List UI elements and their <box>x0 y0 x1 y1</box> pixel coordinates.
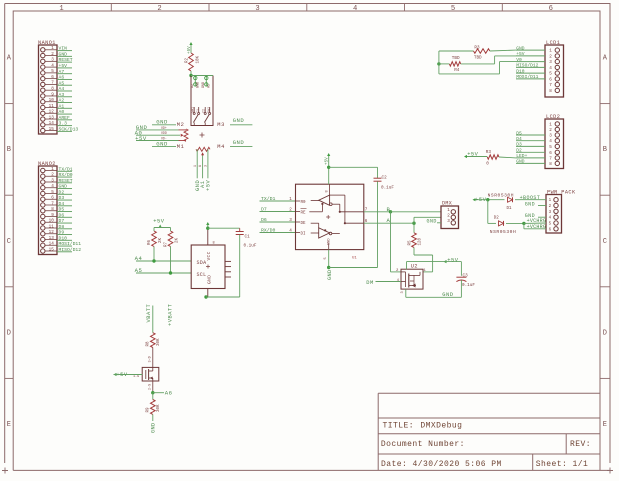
svg-text:M2: M2 <box>177 122 185 128</box>
svg-text:D7: D7 <box>59 218 65 224</box>
svg-text:15: 15 <box>49 127 55 132</box>
wire +5V rail to C3 <box>407 262 462 276</box>
svg-text:D8: D8 <box>59 224 65 230</box>
resistor R3b <box>467 150 516 166</box>
svg-text:RX/D0: RX/D0 <box>59 172 73 178</box>
connector LCD2 pin 4 D4 <box>516 136 560 144</box>
wire VCHRG pins <box>524 218 546 230</box>
svg-text:12: 12 <box>49 230 55 235</box>
connector LCD2 pin 5 D3 <box>516 142 560 150</box>
resistor R9 30K <box>146 393 161 415</box>
svg-text:0.1uF: 0.1uF <box>244 244 257 249</box>
capacitor C2 0.1uF <box>374 167 395 267</box>
svg-text:VBATT: VBATT <box>146 304 152 323</box>
svg-text:Document Number:: Document Number: <box>381 440 465 449</box>
connector LCD2 pin 2 <box>549 127 559 133</box>
svg-text:3: 3 <box>204 165 208 167</box>
wire TX/D1 to U1 pin 1 <box>260 196 296 202</box>
resistor R4 TBD <box>439 56 516 73</box>
connector NANO2 pin 8 D5 <box>41 207 72 213</box>
frame row ticks left and right <box>5 103 14 105</box>
svg-text:7: 7 <box>365 208 368 213</box>
diode D2 NSR0530H <box>488 216 524 235</box>
svg-text:R5: R5 <box>409 240 413 246</box>
connector NANO1 pin 11 A1 <box>41 103 72 109</box>
diode D1 NSR0530H <box>488 192 520 211</box>
resistor R6 2K <box>148 231 163 261</box>
node junction R6/A4 <box>152 259 155 262</box>
svg-text:3: 3 <box>549 134 552 139</box>
connector LCD1 pin 3 V0 <box>516 57 560 65</box>
resistor R5 120 <box>409 223 423 255</box>
svg-text:MOSI/D11: MOSI/D11 <box>516 74 538 80</box>
svg-text:6: 6 <box>51 75 54 80</box>
connector DMX body <box>441 206 459 229</box>
svg-text:2: 2 <box>51 173 54 178</box>
connector NANO1 pin 9 A3 <box>41 92 72 98</box>
svg-text:GND: GND <box>202 82 206 88</box>
IC U3 pin names <box>197 251 213 284</box>
connector NANO1 pin 8 A4 <box>41 86 72 92</box>
IC U3 VCC pin wire <box>208 228 215 245</box>
connector NANO1 body <box>39 45 58 134</box>
connector LCD1 pin 7 <box>549 82 559 88</box>
wire U3 GND to C1 bottom <box>206 296 240 298</box>
capacitor C3 0.1uF <box>456 273 475 297</box>
connector NANO2 pin 9 D6 <box>41 212 72 218</box>
svg-text:2: 2 <box>447 214 450 219</box>
potentiometer VR2 body <box>196 147 210 155</box>
svg-text:13: 13 <box>49 115 55 120</box>
svg-text:5: 5 <box>549 145 552 150</box>
node junction U1 GND <box>327 266 330 269</box>
connector LCD1 pin 6 MOSI/D11 <box>516 74 560 82</box>
wire rail R3 R4 <box>438 51 440 74</box>
svg-text:3: 3 <box>289 218 292 223</box>
svg-text:TX/D1: TX/D1 <box>59 166 73 172</box>
potentiometer VR1 body <box>179 129 189 141</box>
svg-text:GND: GND <box>59 51 68 57</box>
connector LCD1 body <box>545 45 564 97</box>
svg-text:2: 2 <box>289 208 292 213</box>
svg-text:3-D: 3-D <box>148 356 152 362</box>
transistor Q1 body <box>133 367 159 381</box>
svg-text:SCK/D13: SCK/D13 <box>59 126 79 132</box>
connector NANO1 pin 4 +5V <box>41 63 72 69</box>
svg-text:D6: D6 <box>59 212 65 218</box>
frame corner cross bottom-left <box>2 468 8 474</box>
svg-text:1: 1 <box>51 167 54 172</box>
svg-text:D9: D9 <box>59 230 65 236</box>
svg-text:D10: D10 <box>59 235 68 241</box>
svg-text:30K: 30K <box>157 404 161 412</box>
svg-text:3.3: 3.3 <box>59 121 68 127</box>
IC U1 pin names <box>296 201 307 237</box>
connector NANO1 pin 15 SCK/D13 <box>41 126 79 132</box>
svg-text:D2: D2 <box>516 148 522 154</box>
svg-text:VDD: VDD <box>161 131 167 135</box>
svg-text:SCL: SCL <box>197 272 207 278</box>
resistor R2 10K <box>186 53 201 71</box>
svg-text:11: 11 <box>49 104 55 109</box>
connector LCD1 pin 4 MISO/D12 <box>516 63 560 71</box>
IC U1 VCC pin 8 wire <box>328 167 330 184</box>
svg-text:DI: DI <box>301 232 307 236</box>
svg-text:+VBATT: +VBATT <box>167 303 173 326</box>
svg-text:B: B <box>7 146 11 154</box>
svg-text:6: 6 <box>549 77 552 82</box>
potentiometer VR1 wires <box>136 130 180 141</box>
svg-text:C3: C3 <box>463 273 469 278</box>
connector NANO1 pin 3 RESET <box>41 57 73 63</box>
svg-text:4: 4 <box>51 184 54 189</box>
connector NANO1 pin 5 A7 <box>41 69 72 75</box>
svg-text:1: 1 <box>59 5 63 13</box>
connector LCD2 pin 3 D5 <box>516 130 560 138</box>
svg-text:D3: D3 <box>59 195 65 201</box>
wire A5 to U3 SCL <box>136 272 191 274</box>
svg-text:5: 5 <box>324 257 328 259</box>
svg-text:GND: GND <box>233 117 245 124</box>
svg-text:GND: GND <box>156 140 168 147</box>
power +5V above U1 <box>325 153 331 167</box>
svg-text:8: 8 <box>326 190 330 192</box>
connector LCD2 body <box>545 119 564 169</box>
wire D6 to U1 pin 3 <box>260 217 296 223</box>
svg-text:D6: D6 <box>261 217 267 223</box>
resistor R8 30K <box>146 333 161 348</box>
connector PWR PACK pin 2 GND <box>549 203 559 209</box>
svg-text:TITLE:: TITLE: <box>383 421 415 430</box>
connector NANO1 pin 12 A0 <box>41 109 72 115</box>
wire RX/D0 to U1 pin 4 <box>260 228 296 234</box>
svg-text:RESET: RESET <box>59 178 73 184</box>
svg-text:1: 1 <box>549 122 552 127</box>
node junction A6 <box>151 391 154 394</box>
svg-text:TBD: TBD <box>452 56 460 61</box>
node junction VCHRG <box>522 222 525 225</box>
connector NANO2 pin 1 TX/D1 <box>41 166 73 172</box>
svg-text:1: 1 <box>549 49 552 54</box>
connector LCD2 pin 7 LED+ <box>516 153 560 161</box>
svg-text:M1: M1 <box>177 144 185 150</box>
svg-text:R0: R0 <box>301 201 307 205</box>
svg-text:4: 4 <box>397 279 399 283</box>
power +5V at PWR PACK <box>473 197 487 203</box>
svg-text:M4: M4 <box>217 144 225 150</box>
connector NANO2 pin 6 D3 <box>41 195 72 201</box>
connector NANO1 pin 7 A5 <box>41 80 72 86</box>
svg-text:9: 9 <box>51 92 54 97</box>
potentiometer VR2 wires down <box>197 149 208 178</box>
svg-text:7: 7 <box>549 83 552 88</box>
svg-text:D2: D2 <box>59 189 65 195</box>
IC U1 pin 7 wire B <box>364 206 391 213</box>
svg-text:A1: A1 <box>59 103 65 109</box>
connector PWR PACK pin 1 +BOOST <box>549 198 559 204</box>
connector LCD2 pin 8 GND <box>516 159 560 167</box>
switch SW1 pin circles <box>194 76 208 87</box>
node junction R3/R4 rail <box>437 62 440 65</box>
svg-text:TX/D1: TX/D1 <box>261 196 276 202</box>
svg-text:5: 5 <box>51 190 54 195</box>
potentiometer VR1 pin names <box>161 126 167 141</box>
svg-text:A7: A7 <box>59 69 65 75</box>
power +5V above R6 R7 <box>153 219 170 232</box>
svg-text:4: 4 <box>353 5 357 13</box>
svg-text:A2: A2 <box>208 84 212 88</box>
IC U1 pin 6 wire A <box>364 217 414 224</box>
svg-text:D5: D5 <box>516 130 522 136</box>
connector PWR PACK body <box>546 195 562 234</box>
svg-text:GND: GND <box>327 269 333 280</box>
svg-text:5: 5 <box>549 72 552 77</box>
power +5V at Q1 gate <box>114 372 143 378</box>
svg-text:15: 15 <box>49 247 55 252</box>
svg-text:+5V: +5V <box>59 63 68 69</box>
switch SW1 pin names A2 GND <box>191 82 211 88</box>
svg-text:GND: GND <box>151 422 157 433</box>
connector NANO1 pin 14 3.3 <box>41 121 72 127</box>
mount pin M2 wire and GND <box>152 119 184 128</box>
svg-text:GND: GND <box>197 82 201 88</box>
svg-text:14: 14 <box>49 242 55 247</box>
connector LCD1 pin 5 D10 <box>516 68 560 76</box>
svg-text:1: 1 <box>51 46 54 51</box>
connector NANO2 pin 14 MOSI/D11 <box>41 241 82 247</box>
transistor Q1 source wire <box>148 381 153 393</box>
connector NANO2 pin 4 GND <box>41 184 72 190</box>
svg-text:D10: D10 <box>516 68 525 74</box>
connector PWR PACK pin 3 <box>549 209 559 215</box>
connector NANO2 pin 2 RX/D0 <box>41 172 73 178</box>
frame column ticks top <box>110 4 112 12</box>
svg-text:LED+: LED+ <box>516 153 527 159</box>
switch module SW1 body <box>191 76 213 126</box>
wire U1 GND to C2 bottom <box>329 267 378 269</box>
svg-text:R8: R8 <box>146 341 150 347</box>
svg-text:A: A <box>387 217 391 224</box>
svg-text:B: B <box>603 146 607 154</box>
svg-text:6: 6 <box>365 219 368 224</box>
svg-text:C2: C2 <box>382 176 388 181</box>
svg-text:2: 2 <box>51 52 54 57</box>
svg-text:1: 1 <box>289 197 292 202</box>
svg-text:C: C <box>603 238 607 246</box>
wire +5V down to D2 <box>487 200 489 224</box>
wire +5V to C2 <box>329 166 378 168</box>
svg-text:2: 2 <box>549 54 552 59</box>
connector PWR PACK pin 4 GND <box>549 215 559 221</box>
svg-text:RE: RE <box>301 211 307 215</box>
ground wire U2 C3 <box>406 292 462 298</box>
svg-text:1: 1 <box>193 165 197 167</box>
svg-text:R4: R4 <box>454 68 460 73</box>
svg-text:TBD: TBD <box>474 55 482 60</box>
mount pin M1 wire and GND <box>152 140 184 150</box>
IC U3 GND pin wire <box>207 289 209 298</box>
svg-text:10K: 10K <box>197 55 201 63</box>
wire VBATT to R8 <box>152 306 154 333</box>
connector NANO2 pin 11 D8 <box>41 224 72 230</box>
svg-text:R3: R3 <box>474 46 480 51</box>
svg-text:9: 9 <box>51 213 54 218</box>
svg-text:30K: 30K <box>157 338 161 346</box>
svg-text:10: 10 <box>49 219 55 224</box>
svg-text:GND: GND <box>156 119 168 126</box>
connector NANO1 pin 10 A2 <box>41 98 72 104</box>
svg-text:DM: DM <box>366 280 373 286</box>
connector NANO1 pin 13 AREF <box>41 115 72 121</box>
transistor U2 pin numbers <box>396 269 427 293</box>
node junction U3 VCC / C1 <box>206 227 209 230</box>
wire D1 to BOOST pin <box>520 195 547 201</box>
wire rail to V0 <box>439 62 516 74</box>
svg-text:2: 2 <box>549 128 552 133</box>
title block frame <box>378 393 600 470</box>
connector LCD1 pin 8 <box>549 88 559 94</box>
IC U1 receiver triangle <box>309 195 332 212</box>
svg-text:+5V: +5V <box>206 180 212 191</box>
svg-text:GND: GND <box>206 275 212 284</box>
frame corner cross bottom-right <box>607 468 613 474</box>
svg-text:SDA: SDA <box>197 260 207 266</box>
connector NANO2 pin 7 D4 <box>41 201 72 207</box>
svg-text:D5: D5 <box>59 207 65 213</box>
svg-text:3: 3 <box>447 219 450 224</box>
svg-text:DE: DE <box>301 222 307 226</box>
svg-text:10: 10 <box>49 98 55 103</box>
svg-text:VD+: VD+ <box>161 126 167 130</box>
connector PWR PACK pin 5 +VCHRG <box>549 221 559 227</box>
svg-text:A3: A3 <box>59 92 65 98</box>
svg-text:W: W <box>198 165 202 167</box>
switch SW1 contacts <box>193 107 211 126</box>
power +5V above R2 <box>187 42 193 54</box>
svg-text:12: 12 <box>49 110 55 115</box>
center cross mark <box>200 133 205 138</box>
svg-text:5: 5 <box>51 69 54 74</box>
svg-text:6: 6 <box>51 196 54 201</box>
node junction B <box>389 210 392 213</box>
connector NANO2 pin 15 MISO/D12 <box>41 247 82 253</box>
svg-text:5: 5 <box>451 5 455 13</box>
resistor R3 TBD <box>439 46 516 61</box>
svg-text:7: 7 <box>549 156 552 161</box>
IC U3 body <box>191 245 225 289</box>
svg-text:R2: R2 <box>186 57 190 63</box>
node junction A <box>412 222 415 225</box>
net label GND PWR pin4 <box>525 213 546 219</box>
svg-text:GND: GND <box>427 219 437 225</box>
svg-text:DMXDebug: DMXDebug <box>420 421 462 430</box>
connector NANO2 body <box>39 166 58 255</box>
switch SW1 labels <box>191 107 211 113</box>
svg-text:VIN: VIN <box>59 46 68 52</box>
IC U1 internal wires <box>326 184 364 249</box>
svg-text:D4: D4 <box>516 136 522 142</box>
resistor R7 2K <box>165 231 180 273</box>
svg-text:+5V: +5V <box>516 51 525 57</box>
svg-text:D3: D3 <box>516 142 522 148</box>
IC U1 GND pin 5 wire <box>324 250 329 268</box>
svg-text:E: E <box>7 421 11 429</box>
svg-text:8: 8 <box>549 89 552 94</box>
svg-text:A0: A0 <box>59 109 65 115</box>
svg-text:1-G: 1-G <box>133 375 139 379</box>
svg-text:13: 13 <box>49 236 55 241</box>
svg-text:4: 4 <box>51 63 54 68</box>
svg-text:+5V: +5V <box>135 135 147 142</box>
svg-text:A2: A2 <box>191 84 195 88</box>
svg-text:4: 4 <box>549 66 552 71</box>
svg-text:2: 2 <box>157 5 161 13</box>
svg-text:D: D <box>603 329 607 337</box>
svg-text:R3: R3 <box>486 150 492 155</box>
svg-text:E: E <box>603 421 607 429</box>
connector LCD2 pin 6 D2 <box>516 148 560 156</box>
svg-text:14: 14 <box>49 121 55 126</box>
wire R5 to U2 pin 1 <box>414 255 433 272</box>
IC U1 body <box>296 184 364 249</box>
svg-text:GND: GND <box>328 239 332 245</box>
svg-text:+5V: +5V <box>447 257 458 263</box>
svg-text:+VCHRG: +VCHRG <box>527 224 547 230</box>
node junction R7/A5 <box>169 271 172 274</box>
mount pin M3 wire and GND <box>217 117 252 128</box>
IC U1 driver triangle <box>311 223 332 238</box>
svg-text:A6: A6 <box>59 75 65 81</box>
svg-text:11: 11 <box>49 224 55 229</box>
svg-text:120: 120 <box>419 237 423 245</box>
power +5V at U2 <box>444 257 459 263</box>
connector NANO1 pin 6 A6 <box>41 75 72 81</box>
ground GND below R9 <box>151 414 157 433</box>
svg-text:GND: GND <box>442 292 453 298</box>
potentiometer VR2 pin names <box>193 165 208 167</box>
svg-text:VD-: VD- <box>161 137 167 141</box>
svg-text:R7: R7 <box>165 241 169 247</box>
svg-text:2K: 2K <box>176 237 180 243</box>
wire R2 to switch junction <box>190 71 192 76</box>
svg-text:MISO/D12: MISO/D12 <box>59 247 82 253</box>
svg-text:A4: A4 <box>59 86 65 92</box>
power +5V at U3 VCC <box>206 222 209 228</box>
svg-text:+5V: +5V <box>153 219 164 225</box>
connector NANO1 pin 1 VIN <box>41 46 72 52</box>
svg-text:3: 3 <box>51 58 54 63</box>
svg-text:GND: GND <box>233 139 245 146</box>
svg-text:6: 6 <box>549 5 553 13</box>
node junction +5V PWR <box>486 198 489 201</box>
connector NANO2 pin 12 D9 <box>41 230 72 236</box>
connector NANO1 pin 2 GND <box>41 51 72 57</box>
svg-text:3: 3 <box>549 60 552 65</box>
connector LCD1 pin 1 GND <box>516 45 560 53</box>
transistor U2 body <box>401 269 423 289</box>
svg-text:8: 8 <box>213 242 215 246</box>
svg-text:V0: V0 <box>516 57 522 63</box>
transistor U2 mosfet symbol <box>401 272 420 288</box>
svg-text:0.1uF: 0.1uF <box>462 283 475 288</box>
svg-text:RX/D0: RX/D0 <box>261 228 276 234</box>
svg-text:1: 1 <box>447 208 450 213</box>
svg-text:NSR0530H: NSR0530H <box>490 229 516 235</box>
svg-text:NSR0530H: NSR0530H <box>488 192 514 198</box>
svg-text:D4: D4 <box>59 201 65 207</box>
power +5V at R3b <box>464 152 479 158</box>
connector NANO2 pin 5 D2 <box>41 189 72 195</box>
